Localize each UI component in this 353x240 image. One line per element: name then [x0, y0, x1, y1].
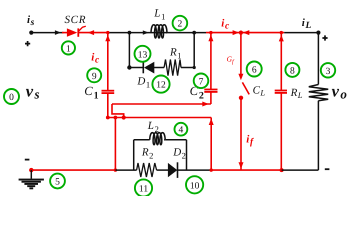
bottom rail red left	[31, 169, 115, 171]
svg-text:4: 4	[179, 126, 184, 136]
diode D1 (pointing left)	[143, 62, 154, 74]
svg-text:C: C	[84, 84, 93, 98]
wire: C1 column red	[107, 33, 109, 90]
node 3 circle	[321, 63, 335, 77]
wire: right column below R_L	[317, 101, 319, 170]
svg-text:3: 3	[326, 67, 331, 77]
node 13 circle	[135, 46, 151, 62]
switch branch: lower lead	[240, 98, 242, 170]
svg-text:0: 0	[9, 93, 14, 103]
svg-text:8: 8	[290, 67, 295, 77]
svg-text:2: 2	[199, 91, 204, 102]
wire: C_L column below	[280, 93, 282, 170]
R1/D1 branch right vertical	[193, 33, 195, 68]
L2 block right vertical	[186, 140, 188, 170]
wire: red from SCR to node at x=107.8	[79, 32, 108, 34]
junction switch branch node 6 on top wire	[239, 30, 243, 34]
current arrow (red, pointing left toward SCR)	[88, 30, 95, 35]
current arrow pointing left into switch node	[243, 30, 250, 35]
L2 block left vertical	[133, 140, 135, 170]
wire: staircase jog	[112, 104, 124, 118]
svg-text:5: 5	[55, 178, 60, 188]
current arrow up on C1 column	[105, 35, 110, 42]
switch blade	[242, 82, 249, 94]
svg-text:13: 13	[138, 50, 148, 60]
junction D1-R1 branch left on top wire	[127, 31, 131, 35]
R1/D1 branch left vertical	[128, 33, 130, 68]
wire: C2 column red above	[210, 33, 212, 89]
wire: C2 column red below	[210, 92, 212, 104]
node A: source positive terminal dot	[29, 30, 33, 34]
svg-text:9: 9	[92, 72, 97, 82]
rail black D2 to red join	[177, 169, 211, 171]
svg-text:12: 12	[156, 81, 166, 91]
bottom rail black right	[282, 169, 319, 171]
capacitor C_L	[275, 91, 287, 93]
wire: top red segment	[206, 32, 284, 34]
label + (source)	[25, 41, 30, 46]
wire: top black to right corner	[284, 32, 318, 34]
bottom rail black to R2	[115, 169, 136, 171]
wire: right column above R_L	[317, 33, 319, 85]
ground	[19, 170, 44, 189]
svg-text:11: 11	[139, 185, 148, 195]
wire: upper middle red line	[112, 103, 211, 105]
label minus (v_o bottom)	[325, 168, 330, 170]
current arrow i_c pointing right into switch node	[233, 30, 240, 35]
wire D1 to R1	[154, 67, 164, 69]
node 1 circle	[62, 41, 75, 54]
label minus (source)	[25, 159, 30, 161]
svg-text:10: 10	[190, 181, 200, 191]
label + (v_o)	[322, 35, 327, 40]
svg-text:2: 2	[178, 20, 183, 30]
resistor R1	[164, 60, 181, 76]
current arrow down i_f	[239, 162, 244, 169]
svg-text:6: 6	[252, 66, 257, 76]
node 4 circle	[175, 123, 188, 136]
resistor R2	[137, 163, 157, 177]
svg-text:1: 1	[66, 44, 71, 54]
node 2 circle	[173, 16, 188, 31]
current arrow black before L1	[143, 30, 149, 34]
node 8 circle	[285, 63, 299, 77]
inductor L2	[150, 133, 166, 145]
wire: top-left black from source to SCR	[31, 32, 63, 34]
junction C_L branch on bottom rail	[280, 168, 284, 172]
wire R1 to right vertical	[181, 67, 194, 69]
junction: rail drop wire on lower line	[114, 116, 118, 120]
diode D2 (pointing right)	[168, 162, 178, 178]
switch pivot dot	[239, 96, 243, 100]
junction C2 branch on top wire	[209, 31, 212, 34]
bottom rail red middle	[211, 169, 281, 171]
svg-text:1: 1	[94, 91, 99, 102]
svg-text:SCR: SCR	[64, 14, 86, 26]
node 9 circle	[87, 68, 101, 82]
current arrow up on C_L column	[279, 35, 284, 42]
resistor R_L (load)	[309, 85, 328, 101]
current arrow up on C2 column	[208, 35, 213, 42]
inductor L1	[151, 25, 167, 38]
junction D1-R1 branch right on top wire	[192, 31, 196, 35]
wire: vertical down from lower line to rail (left)	[114, 118, 116, 171]
L2 block top wire left	[134, 139, 150, 141]
junction node 9 branch on top wire	[106, 31, 109, 34]
wire: short red lead into SCR	[62, 32, 67, 34]
wire: lower middle red line	[108, 117, 211, 119]
node 10 circle	[186, 176, 203, 193]
wire: vertical down from lower line to rail (right)	[210, 118, 212, 171]
node 5 circle	[50, 174, 65, 189]
current arrow up near corner	[209, 119, 214, 126]
wire: C_L column above	[280, 33, 282, 91]
current arrow i_s	[55, 30, 61, 35]
current arrow down on switch lead	[238, 74, 243, 81]
source negative terminal dot	[29, 168, 33, 172]
junction: staircase joins lower line	[122, 115, 126, 119]
capacitor C2	[204, 90, 217, 92]
node 0 circle	[4, 89, 19, 104]
node 6 circle	[247, 62, 262, 77]
wire: top black from node to L1 box	[108, 32, 206, 34]
node 12 circle	[152, 76, 169, 93]
SCR U1 (thyristor)	[67, 26, 86, 37]
node 11 circle	[135, 179, 152, 196]
current arrow on upper line	[202, 102, 209, 107]
capacitor C1	[102, 91, 115, 93]
node 7 circle	[194, 74, 209, 89]
junction C_L branch node 8 on top wire	[280, 31, 283, 34]
switch branch: upper lead	[240, 33, 242, 78]
wire R2 to D2	[157, 169, 169, 171]
corner node 3 top right	[316, 30, 320, 34]
svg-text:7: 7	[199, 77, 204, 87]
wire branch to D1	[129, 67, 143, 69]
L2 block top wire right	[166, 139, 187, 141]
